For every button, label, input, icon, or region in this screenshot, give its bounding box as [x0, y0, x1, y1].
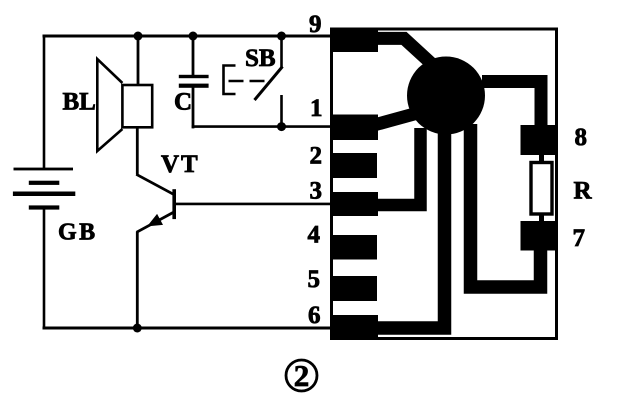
- node dot SB/top rail: [277, 32, 286, 41]
- chip blob: [407, 57, 485, 135]
- wire emitter down: [136, 232, 139, 330]
- pad 2: [332, 153, 377, 178]
- IC module board outline: [332, 29, 557, 339]
- transistor VT collector: [136, 174, 173, 194]
- speaker BL cone: [97, 59, 122, 151]
- pad 3: [332, 192, 378, 216]
- node dot capacitor/top rail: [189, 32, 198, 41]
- trace pad3 to chip: [374, 128, 421, 205]
- trace pad6 to chip: [374, 128, 445, 328]
- svg-text:8: 8: [575, 124, 588, 151]
- svg-text:5: 5: [308, 266, 321, 293]
- svg-text:3: 3: [310, 178, 323, 205]
- capacitor C plates: [179, 75, 209, 88]
- wire bottom rail: [43, 327, 333, 330]
- svg-text:6: 6: [308, 302, 321, 329]
- wire capacitor bottom stub: [192, 87, 195, 128]
- wire speaker bottom to collector: [136, 127, 139, 175]
- transistor VT emitter: [137, 212, 174, 232]
- switch SB upper contact: [280, 36, 283, 68]
- wire speaker top: [137, 36, 140, 86]
- node dot SB/pin1 wire: [277, 122, 286, 131]
- battery GB: [13, 168, 75, 210]
- speaker BL frame: [122, 85, 152, 127]
- svg-text:SB: SB: [245, 45, 276, 72]
- svg-text:R: R: [574, 178, 593, 205]
- svg-text:2: 2: [310, 143, 323, 170]
- svg-text:2: 2: [294, 358, 310, 393]
- trace chip to pad7: [471, 124, 541, 287]
- resistor R stub bottom: [539, 213, 544, 222]
- wire left vertical (battery top): [43, 35, 46, 170]
- trace pad1 to chip: [374, 114, 416, 126]
- pad 7: [521, 221, 558, 251]
- svg-text:BL: BL: [63, 89, 96, 116]
- svg-text:VT: VT: [161, 151, 200, 178]
- figure number circle: [286, 360, 317, 391]
- transistor VT base bar: [172, 189, 176, 219]
- resistor R stub top: [539, 154, 544, 164]
- pad 6: [332, 315, 378, 338]
- wire top rail: [43, 35, 333, 38]
- node dot speaker/top rail: [134, 32, 143, 41]
- pad 1: [332, 115, 378, 141]
- svg-text:4: 4: [308, 222, 321, 249]
- pad 8: [521, 125, 558, 155]
- pad 9: [332, 28, 378, 53]
- switch SB lever: [255, 67, 283, 101]
- switch SB actuator bracket: [224, 66, 236, 95]
- node dot emitter/bottom rail: [133, 324, 142, 333]
- svg-text:9: 9: [309, 11, 322, 38]
- wire pin1 horizontal: [192, 125, 332, 128]
- wire capacitor top stub: [192, 35, 195, 78]
- switch SB lower contact: [280, 95, 283, 127]
- svg-text:C: C: [174, 89, 192, 116]
- wire battery bottom vertical: [43, 210, 46, 330]
- trace pad9 to chip: [374, 38, 433, 65]
- pad 5: [332, 276, 377, 301]
- svg-text:7: 7: [573, 225, 586, 252]
- svg-text:1: 1: [310, 95, 323, 122]
- wire base to pin3: [175, 203, 333, 206]
- pad 4: [332, 235, 377, 260]
- trace chip to pad8: [482, 82, 541, 127]
- resistor R body: [531, 163, 552, 215]
- transistor VT emitter arrow: [148, 215, 162, 226]
- svg-text:GB: GB: [58, 220, 98, 246]
- switch SB actuator dashed link: [229, 80, 266, 83]
